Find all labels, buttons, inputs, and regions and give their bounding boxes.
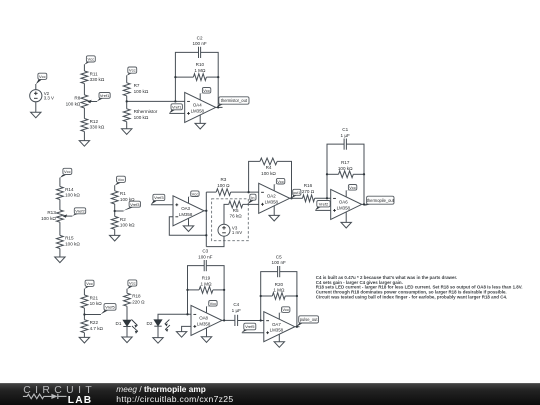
wire thermistor node to OA4 inverting input xyxy=(127,100,185,102)
wire OA2 output to R16 xyxy=(290,197,303,199)
junction C1 rail left R17 xyxy=(326,173,328,175)
ground below OA3 xyxy=(183,226,193,232)
resistor R12 330 kΩ xyxy=(81,119,105,132)
ground at OA8 plus input xyxy=(176,332,186,338)
svg-text:LM358: LM358 xyxy=(197,321,211,326)
svg-text:Vref2: Vref2 xyxy=(75,208,85,213)
svg-text:10 kΩ: 10 kΩ xyxy=(90,301,103,306)
junction R1 R2 node xyxy=(114,210,116,212)
svg-text:in: in xyxy=(251,195,254,200)
resistor R1 100 kΩ xyxy=(111,191,135,204)
potentiometer R8 100 kΩ xyxy=(66,95,88,108)
svg-text:OA3: OA3 xyxy=(181,206,190,211)
ground below R12 xyxy=(79,141,89,147)
ground below OA8 xyxy=(201,337,211,343)
wire OA8 plus input to ground xyxy=(182,326,191,331)
junction thermistor node xyxy=(126,100,128,102)
svg-text:1 mV: 1 mV xyxy=(232,230,242,235)
resistor Rthermistor 100 kΩ xyxy=(123,109,158,122)
svg-text:Circuit was tested using ball: Circuit was tested using ball of index f… xyxy=(316,295,507,300)
svg-text:OA7: OA7 xyxy=(272,322,281,327)
footer bar xyxy=(0,383,540,405)
svg-text:OA2: OA2 xyxy=(267,194,276,199)
svg-text:Vref1: Vref1 xyxy=(172,104,182,109)
junction OA4 output feedback xyxy=(217,106,219,108)
svg-text:100 kΩ: 100 kΩ xyxy=(65,242,80,247)
junction C3 rail right R19 xyxy=(223,289,225,291)
voltage source V3 1 mV xyxy=(218,224,242,236)
photodiode D2 xyxy=(147,320,170,332)
wire C5 left rail xyxy=(261,272,278,321)
capacitor C5 100 nF xyxy=(272,254,286,277)
svg-text:1 µF: 1 µF xyxy=(341,133,350,138)
resistor R16 270 Ω xyxy=(302,183,315,202)
wire C3 right rail xyxy=(206,266,224,321)
svg-text:220 Ω: 220 Ω xyxy=(132,299,145,304)
svg-text:pulse_out: pulse_out xyxy=(300,317,319,322)
wire C2 to right rail xyxy=(201,52,219,107)
ground below R15 xyxy=(55,257,65,263)
wire R4 right rail xyxy=(277,161,291,198)
svg-text:100 kΩ: 100 kΩ xyxy=(134,115,149,120)
net flag Vref1 at R8 wiper xyxy=(97,93,110,102)
wire C4 to OA7 inverting input xyxy=(238,320,264,322)
svg-text:1 MΩ: 1 MΩ xyxy=(273,287,285,292)
power flag Vcc at V2 xyxy=(36,73,47,84)
svg-text:330 kΩ: 330 kΩ xyxy=(90,125,105,130)
wire V2 bottom xyxy=(35,102,37,112)
svg-text:Vref1: Vref1 xyxy=(100,93,110,98)
svg-text:R5: R5 xyxy=(233,208,239,213)
wire Vcc to R21 xyxy=(83,289,85,295)
net flag thermistor_out xyxy=(217,97,249,107)
wire C1 right rail xyxy=(346,144,364,204)
svg-text:100 kΩ: 100 kΩ xyxy=(338,166,353,171)
svg-text:R18: R18 xyxy=(132,294,141,299)
wire V2 top xyxy=(35,84,37,90)
junction OA6 output feedback xyxy=(363,203,365,205)
junction OA7 inverting input xyxy=(260,319,262,321)
svg-text:100 nF: 100 nF xyxy=(198,254,212,259)
wire OA2 bottom pin xyxy=(273,206,275,216)
wire Vref2 to OA6 plus input xyxy=(315,209,330,211)
svg-text:R15: R15 xyxy=(65,236,74,241)
wire Vcc to R7 xyxy=(126,75,128,83)
wire R13 to R15 xyxy=(59,222,61,235)
svg-text:R20: R20 xyxy=(275,282,284,287)
resistor R7 100 kΩ xyxy=(123,83,149,96)
junction OA7 output feedback xyxy=(296,326,298,328)
wire Vref5 to OA7 plus input xyxy=(242,332,264,334)
net flag pulse_out xyxy=(297,316,319,327)
svg-text:R3: R3 xyxy=(220,177,226,182)
net flag Vref2 at R13 wiper xyxy=(72,208,85,216)
svg-text:C2: C2 xyxy=(197,35,203,40)
junction R4 left rail xyxy=(247,191,249,193)
svg-text:100 kΩ: 100 kΩ xyxy=(66,101,81,106)
svg-text:Vref2: Vref2 xyxy=(319,201,329,206)
power flag Vcc at OA4 xyxy=(200,88,211,100)
op-amp OA3 LM358 xyxy=(173,196,204,226)
svg-text:R4: R4 xyxy=(266,165,272,170)
svg-text:100 kΩ: 100 kΩ xyxy=(134,89,149,94)
svg-text:100 kΩ: 100 kΩ xyxy=(65,193,80,198)
capacitor C1 1 µF xyxy=(341,127,350,150)
op-amp OA2 LM358 xyxy=(259,183,290,213)
svg-text:R16: R16 xyxy=(304,183,313,188)
junction OA8 output feedback xyxy=(223,319,225,321)
resistor R19 1 MΩ xyxy=(199,276,213,294)
ground below OA4 xyxy=(195,123,205,129)
wire OA7 output xyxy=(295,326,300,328)
svg-text:thermopile_out: thermopile_out xyxy=(367,198,395,203)
wire OA8 bottom pin xyxy=(206,328,208,337)
svg-text:thermistor_out: thermistor_out xyxy=(221,98,248,103)
junction OA8 inverting input xyxy=(186,313,188,315)
resistor R2 100 kΩ xyxy=(111,216,135,229)
resistor R21 10 kΩ xyxy=(81,295,102,308)
svg-text:Vcc: Vcc xyxy=(64,169,71,174)
svg-text:100 kΩ: 100 kΩ xyxy=(41,216,56,221)
svg-text:4.7 kΩ: 4.7 kΩ xyxy=(90,326,104,331)
op-amp OA4 LM358 xyxy=(185,92,216,122)
wire R19 left lead xyxy=(188,289,200,291)
wire R8 to R12 xyxy=(83,108,85,119)
svg-text:D1: D1 xyxy=(116,321,122,326)
junction OA6 inverting input xyxy=(326,197,328,199)
CircuitLab logo resistor-diode squiggle xyxy=(23,394,51,399)
wire R15 to ground xyxy=(59,249,61,258)
svg-text:R19: R19 xyxy=(202,276,211,281)
ground below OA2 xyxy=(269,215,279,221)
net flag Vref3 at OA3 input xyxy=(151,194,165,204)
wire R11 to R8 xyxy=(83,84,85,95)
wire D2 to ground xyxy=(157,326,159,337)
junction C1 rail right R17 xyxy=(363,173,365,175)
ground below R2 xyxy=(110,235,120,241)
junction R4 right rail xyxy=(290,197,292,199)
wire OA7 bottom pin xyxy=(278,334,280,342)
wire R4 left rail xyxy=(249,161,260,192)
wire OA4 bottom pin xyxy=(199,115,201,124)
svg-text:Vcc: Vcc xyxy=(129,281,136,286)
wire R3 to OA2 inverting input xyxy=(231,191,259,193)
svg-text:LM358: LM358 xyxy=(337,205,351,210)
ground below OA7 xyxy=(274,342,284,348)
wiper arrow of R8 xyxy=(87,100,97,103)
svg-text:C4: C4 xyxy=(233,302,239,307)
wire R21 to R22 xyxy=(83,308,85,320)
svg-text:3.3 V: 3.3 V xyxy=(44,95,54,100)
svg-text:Vcc: Vcc xyxy=(277,179,284,184)
svg-text:D2: D2 xyxy=(147,321,153,326)
svg-text:C3: C3 xyxy=(202,249,208,254)
svg-text:100 kΩ: 100 kΩ xyxy=(261,171,276,176)
power flag Vcc at R14 xyxy=(60,168,72,178)
net flag Vref5 at divider node xyxy=(101,304,116,315)
resistor R10 1 MΩ xyxy=(193,62,206,80)
resistor R15 100 kΩ xyxy=(57,235,81,248)
svg-text:Vcc: Vcc xyxy=(349,185,356,190)
wire D2 to OA8 inverting input xyxy=(158,314,191,320)
svg-text:OA6: OA6 xyxy=(339,200,348,205)
junction right rail R10 xyxy=(217,76,219,78)
wire R17 left lead xyxy=(327,173,339,175)
svg-text:1 µF: 1 µF xyxy=(232,308,241,313)
svg-text:C1: C1 xyxy=(342,127,348,132)
resistor R3 100 Ω xyxy=(216,177,231,195)
wire Rthermistor to ground xyxy=(126,122,128,129)
wire R2 to ground xyxy=(114,229,116,235)
capacitor C2 100 nF xyxy=(192,35,206,58)
potentiometer R13 100 kΩ xyxy=(41,210,63,222)
svg-text:R2: R2 xyxy=(120,217,126,222)
svg-text:270 Ω: 270 Ω xyxy=(302,189,315,194)
dashed box thermopile model xyxy=(212,199,249,241)
wire OA3 feedback to inverting input xyxy=(169,217,206,236)
svg-text:Vcc: Vcc xyxy=(129,68,136,73)
svg-text:R11: R11 xyxy=(90,71,99,76)
wire R14 to R13 xyxy=(59,200,61,211)
junction OA3 feedback xyxy=(205,234,207,236)
svg-text:Vref3: Vref3 xyxy=(130,202,140,207)
svg-text:out1: out1 xyxy=(293,191,300,195)
wire R1 to R2 xyxy=(114,204,116,216)
svg-text:Vcc: Vcc xyxy=(118,177,125,182)
wire R20 right lead xyxy=(285,295,297,297)
svg-text:1 MΩ: 1 MΩ xyxy=(200,281,212,286)
net flag Vref2 at OA6 input xyxy=(315,201,330,211)
junction left rail R10 xyxy=(174,76,176,78)
ground below D1 xyxy=(122,337,132,343)
svg-text:LAB: LAB xyxy=(68,395,93,405)
wire Vcc to R11 xyxy=(83,64,85,71)
power flag Vcc at OA3 xyxy=(189,191,200,203)
power flag Vcc at R7 xyxy=(127,67,137,76)
ground below Rthermistor xyxy=(122,129,132,135)
svg-text:100 kΩ: 100 kΩ xyxy=(120,223,135,228)
svg-text:Vcc: Vcc xyxy=(86,281,93,286)
svg-text:LM358: LM358 xyxy=(179,212,193,217)
wire C1 left rail xyxy=(327,144,344,198)
svg-text:R7: R7 xyxy=(134,83,140,88)
ground below OA6 xyxy=(341,222,351,228)
svg-text:Vcc: Vcc xyxy=(203,88,210,93)
svg-text:R12: R12 xyxy=(90,119,99,124)
svg-text:R21: R21 xyxy=(90,295,99,300)
wire OA3 feedback loop xyxy=(204,210,206,212)
junction OA3 output xyxy=(205,210,207,212)
resistor R17 100 kΩ xyxy=(338,160,353,178)
svg-text:Vcc: Vcc xyxy=(88,56,95,61)
net flag thermopile_out xyxy=(364,196,395,206)
svg-text:Vcc: Vcc xyxy=(39,74,46,79)
resistor R5 76 kΩ xyxy=(229,201,243,219)
svg-text:R1: R1 xyxy=(120,191,126,196)
power flag Vcc at OA8 xyxy=(207,301,218,313)
capacitor C3 100 nF xyxy=(198,249,212,272)
wire Vref3 to OA3 plus input xyxy=(151,204,173,206)
power flag Vcc at OA2 xyxy=(274,178,285,190)
net flag Vref1 at OA4 non-inverting input xyxy=(169,104,182,113)
wire R7 to Rthermistor xyxy=(126,96,128,109)
wire OA4 feedback top rail xyxy=(175,52,198,101)
svg-text:meeg / thermopile amp: meeg / thermopile amp xyxy=(116,384,205,394)
wire C3 left rail xyxy=(188,266,205,315)
wire R3 left lead xyxy=(206,191,216,193)
note annotation text block xyxy=(316,275,523,300)
wire R5 to OA2 plus input xyxy=(243,203,259,205)
svg-text:76 kΩ: 76 kΩ xyxy=(230,214,243,219)
wire OA3 bottom pin xyxy=(188,218,190,226)
wire OA6 bottom pin xyxy=(345,212,347,223)
junction left rail at OA4 input xyxy=(174,100,176,102)
svg-text:330 kΩ: 330 kΩ xyxy=(90,77,105,82)
ground below V2 xyxy=(31,112,41,118)
wire node to Vref3 xyxy=(115,210,124,212)
svg-text:Vref3: Vref3 xyxy=(154,195,164,200)
op-amp OA7 LM358 xyxy=(264,312,295,342)
resistor R14 100 kΩ xyxy=(57,187,81,200)
svg-text:R22: R22 xyxy=(90,320,99,325)
wire OA8 output to C4 xyxy=(222,319,235,321)
op-amp OA6 LM358 xyxy=(331,189,362,219)
LED D1 xyxy=(116,320,138,334)
wire V3 bottom return xyxy=(206,236,224,246)
power flag Vcc at R18 xyxy=(127,280,137,289)
svg-text:R13: R13 xyxy=(47,210,56,215)
svg-text:R14: R14 xyxy=(65,187,74,192)
wire R10 left lead xyxy=(175,76,193,78)
wire R18 to D1 xyxy=(126,306,128,320)
svg-text:Rthermistor: Rthermistor xyxy=(134,109,158,114)
voltage source V2 3.3 V xyxy=(30,90,54,102)
svg-text:C5: C5 xyxy=(276,254,282,259)
svg-text:http://circuitlab.com/cxn7z25: http://circuitlab.com/cxn7z25 xyxy=(116,394,233,404)
wiper arrow of R13 xyxy=(63,214,73,217)
wire Vref1 to OA4 plus input xyxy=(169,112,184,114)
ground below R22 xyxy=(79,337,89,343)
resistor R20 1 MΩ xyxy=(272,282,285,300)
net flag Vref5 at OA7 input xyxy=(242,323,256,332)
svg-text:Vcc: Vcc xyxy=(282,307,289,312)
wire OA3 output rail xyxy=(205,192,207,247)
wire R12 to ground xyxy=(83,132,85,141)
op-amp OA8 LM358 xyxy=(191,305,222,335)
svg-text:R17: R17 xyxy=(341,160,350,165)
wire R16 to OA6 inverting input xyxy=(315,197,331,199)
wire OA6 output xyxy=(362,203,368,205)
wire Vcc to R1 xyxy=(114,185,116,191)
net flag out1 xyxy=(291,189,301,198)
junction C5 rail left R20 xyxy=(260,295,262,297)
wire R17 right lead xyxy=(353,173,364,175)
svg-text:OA4: OA4 xyxy=(193,103,202,108)
svg-text:LM358: LM358 xyxy=(265,199,279,204)
svg-text:Vcc: Vcc xyxy=(210,301,217,306)
wire Vcc to R14 xyxy=(59,178,61,187)
wire C5 right rail xyxy=(280,272,297,327)
resistor R22 4.7 kΩ xyxy=(81,320,104,333)
power flag Vcc at OA7 xyxy=(279,307,290,319)
svg-text:R8: R8 xyxy=(74,96,80,101)
junction R21 R22 node xyxy=(83,313,85,315)
power flag Vcc at R1 xyxy=(115,176,126,185)
resistor R18 220 Ω xyxy=(124,293,146,306)
junction C5 rail right R20 xyxy=(296,295,298,297)
net flag in at OA2 input xyxy=(247,194,256,204)
svg-text:100 nF: 100 nF xyxy=(192,41,206,46)
power flag Vcc at R11 xyxy=(84,56,95,65)
resistor R11 330 kΩ xyxy=(81,71,105,84)
wire node to Vref5 xyxy=(84,314,101,316)
capacitor C4 1 µF xyxy=(232,302,241,326)
wire V3 top to R5 xyxy=(224,204,229,224)
svg-text:Vref5: Vref5 xyxy=(105,304,115,309)
svg-text:OA8: OA8 xyxy=(199,316,208,321)
svg-text:Vcc: Vcc xyxy=(192,191,199,196)
resistor R4 100 kΩ xyxy=(260,158,277,176)
wire R22 to ground xyxy=(83,333,85,338)
svg-text:R10: R10 xyxy=(196,62,205,67)
wire Vcc to R18 xyxy=(126,289,128,293)
junction C3 rail left R19 xyxy=(186,289,188,291)
svg-text:100 nF: 100 nF xyxy=(272,260,286,265)
svg-text:LM358: LM358 xyxy=(191,108,205,113)
wire R10 right lead xyxy=(206,76,218,78)
net flag Vref3 at divider node xyxy=(123,201,140,211)
wire R19 right lead xyxy=(213,289,224,291)
ground below D2 xyxy=(153,338,163,344)
wire R20 left lead xyxy=(261,295,273,297)
power flag Vcc at OA6 xyxy=(346,185,357,197)
wire OA4 output xyxy=(216,106,223,108)
power flag Vcc at R21 xyxy=(84,280,94,289)
svg-text:Vref5: Vref5 xyxy=(245,324,255,329)
svg-text:LM358: LM358 xyxy=(270,328,284,333)
svg-text:1 MΩ: 1 MΩ xyxy=(194,68,206,73)
wire D1 to ground xyxy=(126,327,128,337)
svg-text:100 Ω: 100 Ω xyxy=(217,183,230,188)
